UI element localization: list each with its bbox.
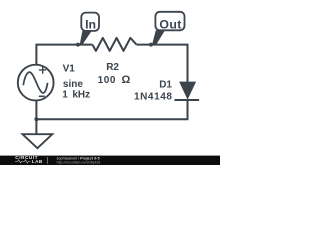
wire top-right segment	[137, 45, 188, 83]
resistor R2 zigzag	[92, 38, 136, 51]
ground	[23, 134, 53, 148]
flag In	[81, 13, 99, 31]
node C dot	[34, 117, 38, 121]
svg-text:D1: D1	[159, 80, 172, 91]
svg-text:LAB: LAB	[32, 159, 43, 164]
wire right-bottom segment	[36, 100, 187, 119]
svg-text:R2: R2	[106, 62, 119, 73]
footer separator	[47, 157, 49, 164]
footer bar	[0, 156, 220, 165]
node A dot	[76, 43, 80, 47]
svg-text:http://circuitlab.com/c9q435: http://circuitlab.com/c9q435	[57, 161, 101, 165]
flag Out pointer	[152, 30, 165, 45]
flag Out	[155, 12, 184, 31]
flag In pointer	[80, 31, 92, 46]
footer logo wave	[15, 160, 31, 163]
wire top-left segment	[36, 45, 92, 65]
svg-text:Out: Out	[159, 17, 181, 31]
svg-text:100 Ω: 100 Ω	[98, 74, 131, 86]
svg-text:1N4148: 1N4148	[134, 92, 173, 103]
svg-text:In: In	[85, 17, 96, 31]
svg-text:sine: sine	[63, 79, 83, 90]
diode D1	[179, 82, 196, 100]
voltage source V1	[18, 65, 54, 101]
svg-text:V1: V1	[63, 64, 76, 75]
node B dot	[149, 43, 153, 47]
wire source-bottom segment	[35, 100, 37, 119]
ground stub wire	[35, 119, 37, 134]
svg-text:1 kHz: 1 kHz	[62, 90, 90, 101]
